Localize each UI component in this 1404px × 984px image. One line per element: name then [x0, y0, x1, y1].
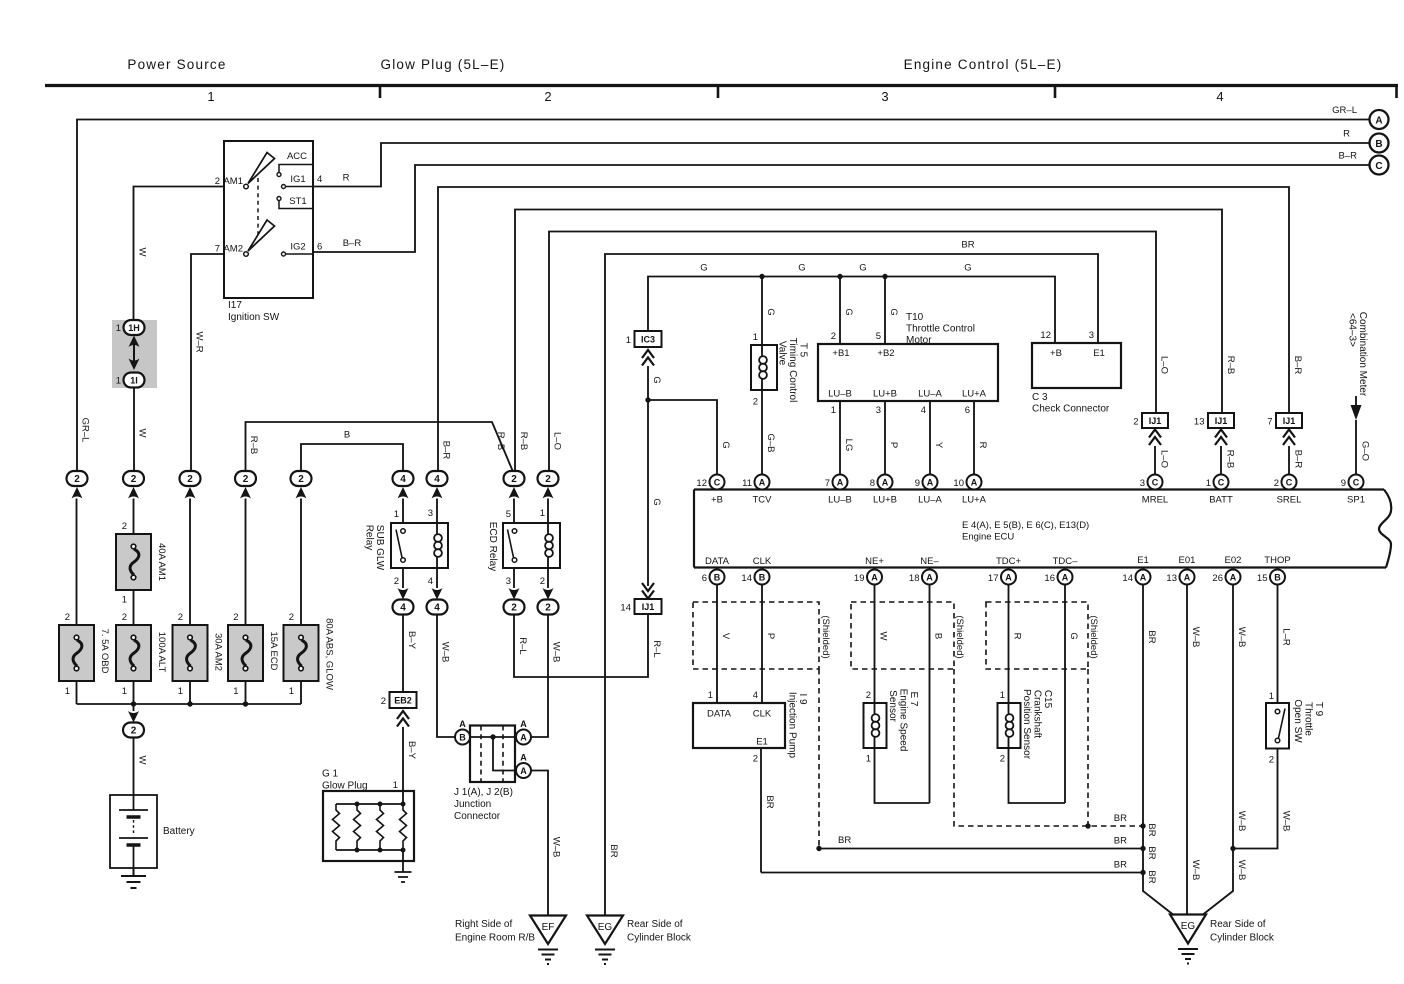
svg-text:L–O: L–O — [552, 432, 563, 450]
svg-text:Motor: Motor — [906, 335, 932, 346]
svg-text:Cylinder Block: Cylinder Block — [627, 933, 692, 944]
svg-text:3: 3 — [1140, 478, 1145, 489]
svg-text:G 1: G 1 — [322, 769, 339, 780]
svg-text:LU–A: LU–A — [918, 495, 942, 506]
svg-text:LU+B: LU+B — [873, 389, 897, 400]
svg-text:1: 1 — [753, 332, 758, 343]
svg-text:1: 1 — [831, 405, 836, 416]
svg-text:A: A — [971, 478, 978, 488]
svg-text:W: W — [878, 632, 889, 641]
svg-text:+B: +B — [711, 495, 723, 506]
svg-text:TDC–: TDC– — [1053, 556, 1079, 567]
ECD coil — [547, 523, 549, 568]
svg-text:1I: 1I — [130, 376, 138, 386]
svg-text:9: 9 — [915, 478, 920, 489]
svg-text:A: A — [1184, 573, 1191, 583]
svg-text:Battery: Battery — [163, 826, 195, 837]
svg-text:W–B: W–B — [1236, 860, 1247, 881]
wire W to battery — [133, 738, 135, 796]
svg-text:16: 16 — [1044, 573, 1055, 584]
svg-text:CLK: CLK — [753, 709, 772, 720]
svg-text:G: G — [1068, 632, 1079, 639]
svg-text:3: 3 — [428, 508, 433, 519]
svg-text:LU–B: LU–B — [828, 495, 852, 506]
svg-text:1: 1 — [1269, 691, 1274, 702]
svg-text:BR: BR — [838, 835, 851, 846]
svg-text:3: 3 — [1089, 330, 1094, 341]
svg-text:12: 12 — [696, 478, 707, 489]
relay SUB GLW box — [403, 499, 437, 524]
svg-text:5: 5 — [876, 331, 881, 342]
svg-text:GR–L: GR–L — [1332, 105, 1357, 116]
svg-text:1: 1 — [866, 754, 871, 765]
svg-text:11: 11 — [742, 478, 752, 489]
svg-text:A: A — [520, 733, 527, 743]
svg-text:NE–: NE– — [920, 556, 939, 567]
wire W-B SUB GLW pin4 to junction B — [437, 615, 455, 738]
svg-text:2: 2 — [544, 89, 551, 104]
svg-text:Connector: Connector — [454, 811, 501, 822]
junction dots on fuse bus — [131, 701, 136, 706]
wire R from IG1 to connector B — [313, 143, 1369, 187]
svg-text:7: 7 — [825, 478, 830, 489]
wire BR lower line from I9 — [761, 872, 1143, 874]
ignition switch I17 box — [224, 141, 313, 298]
svg-text:2: 2 — [233, 612, 238, 623]
svg-text:C: C — [1286, 478, 1293, 488]
svg-text:W–B: W–B — [1281, 811, 1292, 832]
svg-text:2: 2 — [866, 690, 871, 701]
wire G TDC- — [1064, 585, 1066, 804]
svg-text:MREL: MREL — [1142, 495, 1168, 506]
svg-text:+B1: +B1 — [832, 348, 849, 359]
svg-text:18: 18 — [909, 573, 920, 584]
svg-text:2: 2 — [215, 176, 220, 187]
wire AM1 W — [134, 187, 225, 321]
wire col2 to fuse 40A AM1 — [133, 499, 135, 535]
svg-text:B–R: B–R — [1293, 450, 1304, 469]
SUB GLW relay pin3 connector — [427, 471, 448, 486]
wire col5 to fuse 80A ABS GLOW — [300, 499, 302, 626]
svg-text:A: A — [1005, 573, 1012, 583]
svg-text:C: C — [1353, 478, 1360, 488]
sensor E7 engine speed — [864, 703, 887, 748]
svg-text:BR: BR — [1146, 823, 1157, 836]
header rule bar — [45, 84, 1398, 87]
connector 2 IJ1 — [1142, 413, 1168, 428]
svg-text:R: R — [1343, 129, 1350, 140]
svg-text:4: 4 — [753, 690, 758, 701]
connector 13 IJ1 — [1208, 413, 1234, 428]
fuse 80A ABS GLOW — [284, 625, 319, 681]
SUB GLW switch contact — [401, 529, 406, 534]
svg-text:Check Connector: Check Connector — [1032, 404, 1110, 415]
connector 1I — [124, 373, 145, 388]
switch T9 throttle open — [1266, 703, 1289, 749]
svg-text:2: 2 — [187, 474, 193, 485]
wire B-R from IG2 to connector C — [313, 165, 1369, 252]
svg-text:2: 2 — [243, 474, 249, 485]
wire B NE- — [929, 585, 931, 804]
svg-text:1: 1 — [207, 89, 214, 104]
svg-text:BATT: BATT — [1209, 495, 1233, 506]
svg-text:R: R — [977, 442, 988, 449]
node G branch — [645, 397, 650, 402]
svg-text:B–Y: B–Y — [406, 741, 417, 760]
svg-text:G–O: G–O — [1360, 441, 1371, 461]
svg-text:100A ALT: 100A ALT — [156, 632, 167, 673]
svg-text:IJ1: IJ1 — [1283, 416, 1296, 426]
svg-text:2: 2 — [1000, 754, 1005, 765]
svg-text:4: 4 — [1216, 89, 1223, 104]
wire W-B ECD pin2 to junction A — [531, 615, 548, 738]
svg-text:BR: BR — [1146, 630, 1157, 643]
wire E7 to NE- — [875, 748, 930, 803]
wire B-R row to SREL — [438, 187, 1289, 479]
svg-text:2: 2 — [1269, 755, 1274, 766]
svg-text:1: 1 — [116, 323, 121, 334]
svg-text:ECD Relay: ECD Relay — [487, 522, 498, 571]
svg-text:Ignition SW: Ignition SW — [228, 312, 280, 323]
svg-text:A: A — [882, 478, 889, 488]
svg-text:W–B: W–B — [551, 642, 562, 663]
double arrow link 1H-1I — [133, 340, 135, 366]
svg-text:7. 5A OBD: 7. 5A OBD — [99, 629, 110, 674]
svg-text:EF: EF — [542, 922, 555, 933]
wire R-L ECD pin3 to IJ1 — [514, 613, 648, 677]
svg-text:Engine Control (5L–E): Engine Control (5L–E) — [904, 57, 1063, 72]
svg-text:LU+A: LU+A — [962, 495, 987, 506]
svg-text:R: R — [343, 173, 350, 184]
node G bus T5 — [759, 274, 764, 279]
svg-text:TDC+: TDC+ — [996, 556, 1022, 567]
svg-text:R: R — [1012, 633, 1023, 640]
svg-text:6: 6 — [965, 405, 970, 416]
svg-text:6: 6 — [317, 242, 322, 253]
svg-text:BR: BR — [1114, 836, 1127, 847]
svg-text:B: B — [1274, 573, 1281, 583]
svg-text:Throttle Control: Throttle Control — [906, 324, 975, 335]
svg-text:4: 4 — [400, 474, 406, 485]
svg-text:15A ECD: 15A ECD — [268, 631, 279, 670]
fuse 15A ECD — [228, 625, 263, 681]
svg-text:2: 2 — [545, 474, 551, 485]
svg-text:BR: BR — [961, 240, 974, 251]
ECU pin 7 A LU-B — [833, 475, 848, 490]
svg-text:W–B: W–B — [1190, 627, 1201, 648]
wire AM2 W-R — [191, 254, 224, 471]
wire P CLK — [761, 585, 763, 704]
fuse 30A AM2 — [173, 625, 208, 681]
wire BR C3 E1 to EG ground — [605, 254, 1098, 915]
svg-text:L–O: L–O — [1159, 450, 1170, 468]
svg-text:17: 17 — [988, 573, 999, 584]
svg-text:A: A — [871, 573, 878, 583]
ECU pin 1 C BATT — [1214, 475, 1229, 490]
svg-text:LU+B: LU+B — [873, 495, 897, 506]
svg-text:B–Y: B–Y — [406, 631, 417, 650]
svg-text:2: 2 — [131, 474, 137, 485]
svg-text:13: 13 — [1194, 417, 1205, 428]
svg-text:1: 1 — [626, 335, 631, 346]
svg-text:SREL: SREL — [1277, 495, 1302, 506]
svg-text:B: B — [344, 430, 350, 441]
svg-text:4: 4 — [434, 603, 440, 614]
ECU pin 10 A LU+A — [967, 475, 982, 490]
battery feed arrow and connector — [133, 704, 135, 711]
svg-text:A: A — [759, 478, 766, 488]
ECU pin 9 A LU-A — [923, 475, 938, 490]
wire V DATA — [716, 585, 718, 704]
svg-text:+B2: +B2 — [877, 348, 894, 359]
connector 7 IJ1 — [1276, 413, 1302, 428]
svg-text:19: 19 — [854, 573, 865, 584]
svg-text:E1: E1 — [1093, 348, 1105, 359]
svg-text:+B: +B — [1050, 348, 1062, 359]
wire col3 to fuse 30A AM2 — [189, 499, 191, 626]
connector oval col4 R-B — [235, 471, 256, 486]
wire col1 to fuse 7.5A OBD — [76, 499, 78, 626]
svg-text:R–L: R–L — [517, 637, 528, 654]
SUB GLW relay pin1 connector — [393, 471, 414, 486]
svg-text:A: A — [926, 573, 933, 583]
svg-text:EG: EG — [598, 922, 613, 933]
T10 pin 2 +B1 — [839, 277, 841, 345]
svg-text:G: G — [888, 308, 899, 315]
svg-text:Y: Y — [933, 442, 944, 449]
svg-text:A: A — [1375, 116, 1382, 127]
svg-text:AM2: AM2 — [223, 244, 243, 255]
svg-text:3: 3 — [881, 89, 888, 104]
svg-text:G: G — [843, 308, 854, 315]
svg-text:W: W — [137, 248, 148, 257]
svg-text:14: 14 — [1122, 573, 1133, 584]
svg-text:C: C — [1218, 478, 1225, 488]
svg-text:Engine ECU: Engine ECU — [962, 532, 1014, 543]
wire W-B junction to EF ground — [531, 771, 548, 916]
svg-text:1: 1 — [65, 686, 70, 697]
svg-text:2: 2 — [1274, 478, 1279, 489]
wire B col5 to SUB GLW relay pin1 — [301, 444, 403, 471]
svg-text:E1: E1 — [1137, 555, 1149, 566]
svg-text:Cylinder Block: Cylinder Block — [1210, 933, 1275, 944]
node G bus +B2 — [882, 274, 887, 279]
wire G-B T5 to TCV — [761, 390, 763, 474]
svg-text:Power Source: Power Source — [127, 57, 226, 72]
svg-text:Engine Room R/B: Engine Room R/B — [455, 933, 535, 944]
svg-text:2: 2 — [540, 576, 545, 587]
svg-text:Glow Plug (5L–E): Glow Plug (5L–E) — [381, 57, 506, 72]
junction pin A lower — [516, 763, 531, 778]
svg-text:3: 3 — [506, 576, 511, 587]
svg-text:A: A — [520, 753, 527, 763]
ECU pin 3 C MREL — [1148, 475, 1163, 490]
wire R TDC+ — [1008, 585, 1010, 704]
svg-text:IJ1: IJ1 — [1215, 416, 1228, 426]
svg-text:B–R: B–R — [441, 441, 452, 460]
svg-text:2: 2 — [65, 612, 70, 623]
node shield TDC — [1085, 823, 1090, 828]
svg-text:IJ1: IJ1 — [1149, 416, 1162, 426]
svg-text:R–B: R–B — [1225, 356, 1236, 374]
svg-text:W–B: W–B — [1236, 627, 1247, 648]
svg-text:B: B — [759, 573, 766, 583]
svg-text:T10: T10 — [906, 312, 924, 323]
glow plug resistor 3 — [377, 804, 384, 850]
fuse 7.5A OBD — [59, 625, 94, 681]
wire G from IC3 down — [647, 366, 649, 586]
svg-text:P: P — [888, 442, 899, 448]
ECU pin 2 C SREL — [1282, 475, 1297, 490]
junction pin A upper — [516, 730, 531, 745]
svg-text:2: 2 — [511, 474, 517, 485]
svg-text:1: 1 — [393, 780, 398, 791]
ECU engine box — [694, 490, 1386, 568]
svg-text:EB2: EB2 — [394, 696, 412, 706]
svg-text:2: 2 — [511, 603, 517, 614]
svg-text:2: 2 — [1133, 417, 1138, 428]
svg-text:R–B: R–B — [248, 436, 259, 454]
wire G bus — [648, 277, 1055, 344]
glow plug G1 box — [323, 791, 414, 861]
svg-text:GR–L: GR–L — [80, 418, 91, 443]
battery — [110, 795, 157, 868]
shield drain TDC — [1087, 669, 1089, 826]
svg-text:4: 4 — [317, 174, 322, 185]
svg-text:EG: EG — [1181, 921, 1196, 932]
svg-text:15: 15 — [1257, 573, 1268, 584]
svg-text:A: A — [1062, 573, 1069, 583]
svg-text:B–R: B–R — [1339, 151, 1358, 162]
svg-text:1: 1 — [289, 686, 294, 697]
svg-text:THOP: THOP — [1264, 555, 1290, 566]
svg-text:W–B: W–B — [1190, 860, 1201, 881]
svg-text:L–O: L–O — [1159, 356, 1170, 374]
svg-text:W: W — [137, 756, 148, 765]
connector C — [1370, 156, 1389, 175]
shield drain NE — [954, 669, 1143, 826]
connector 14 IJ1 — [642, 583, 654, 599]
wire B-Y to EB2 — [402, 615, 404, 693]
svg-text:B: B — [1375, 139, 1382, 150]
svg-text:Right Side of: Right Side of — [455, 919, 512, 930]
svg-text:2: 2 — [394, 576, 399, 587]
svg-text:1: 1 — [116, 376, 121, 387]
svg-text:2: 2 — [122, 612, 127, 623]
svg-text:9: 9 — [1341, 478, 1346, 489]
svg-text:40A AM1: 40A AM1 — [156, 543, 167, 581]
svg-text:1: 1 — [178, 686, 183, 697]
svg-text:12: 12 — [1040, 330, 1051, 341]
svg-text:BR: BR — [1146, 846, 1157, 859]
wire W below 1I — [133, 388, 135, 471]
svg-text:G: G — [651, 376, 662, 383]
svg-text:B: B — [933, 633, 944, 639]
svg-text:Rear Side of: Rear Side of — [1210, 919, 1266, 930]
relay ECD box — [514, 499, 548, 524]
svg-text:BR: BR — [1114, 813, 1127, 824]
wire BR E1 to EG ground — [1143, 585, 1173, 915]
svg-text:DATA: DATA — [707, 709, 732, 720]
connector oval col1 GR-L — [67, 471, 88, 486]
connector B — [1370, 134, 1389, 153]
svg-text:B–R: B–R — [1292, 356, 1303, 375]
svg-text:BR: BR — [1146, 870, 1157, 883]
connector IC3 — [635, 331, 662, 347]
wire G branch to ECU +B — [648, 400, 717, 474]
svg-text:G: G — [651, 498, 662, 505]
svg-text:Rear Side of: Rear Side of — [627, 919, 683, 930]
svg-text:Glow Plug: Glow Plug — [322, 781, 368, 792]
svg-text:SP1: SP1 — [1347, 495, 1365, 506]
svg-text:G: G — [798, 263, 805, 274]
shield box DATA CLK — [693, 602, 819, 669]
svg-text:(Shielded): (Shielded) — [820, 615, 831, 658]
SUB GLW coil — [436, 523, 438, 568]
svg-text:4: 4 — [434, 474, 440, 485]
connector A — [1370, 110, 1389, 129]
connector EB2 — [390, 692, 417, 708]
svg-text:E02: E02 — [1225, 555, 1242, 566]
svg-text:30A AM2: 30A AM2 — [213, 633, 224, 671]
pump I9 injection box — [693, 703, 785, 748]
shield drain to BR — [818, 669, 820, 849]
svg-text:V: V — [720, 633, 731, 640]
svg-text:E 4(A), E 5(B), E 6(C), E13(D): E 4(A), E 5(B), E 6(C), E13(D) — [962, 520, 1089, 531]
svg-text:IJ1: IJ1 — [642, 602, 655, 612]
ECD switch contact — [512, 529, 517, 534]
svg-text:R–B: R–B — [518, 432, 529, 450]
svg-text:7: 7 — [215, 244, 220, 255]
svg-text:L–R: L–R — [1281, 628, 1292, 646]
svg-text:W–B: W–B — [551, 837, 562, 858]
svg-text:13: 13 — [1166, 573, 1177, 584]
valve T5 timing control — [761, 277, 763, 346]
svg-text:6: 6 — [702, 573, 707, 584]
sensor C15 crankshaft position — [998, 703, 1021, 748]
svg-text:NE+: NE+ — [865, 556, 884, 567]
svg-text:IC3: IC3 — [641, 335, 655, 345]
svg-text:DATA: DATA — [705, 556, 730, 567]
svg-text:2: 2 — [298, 474, 304, 485]
switch lever AM1 — [248, 153, 275, 184]
T10 pin 5 +B2 — [884, 277, 886, 345]
svg-text:2: 2 — [753, 397, 758, 408]
svg-text:A: A — [520, 719, 527, 729]
svg-text:BR: BR — [764, 795, 775, 808]
svg-text:1H: 1H — [128, 323, 140, 333]
wire B-Y to glow plug — [402, 727, 404, 804]
fuse bus wire — [77, 703, 302, 705]
svg-text:W: W — [137, 429, 148, 438]
glow plug resistor 4 — [400, 804, 407, 850]
svg-text:8: 8 — [870, 478, 875, 489]
battery ground — [121, 868, 146, 888]
ground EG cylinder block left — [587, 916, 623, 945]
svg-text:2: 2 — [545, 603, 551, 614]
shield box TDC — [986, 602, 1088, 669]
svg-text:P: P — [765, 633, 776, 639]
svg-text:1: 1 — [122, 595, 127, 606]
svg-text:2: 2 — [131, 726, 137, 737]
wire G-O to SP1 — [1355, 420, 1357, 474]
wire col4 to fuse 15A ECD — [245, 499, 247, 626]
svg-text:G: G — [700, 263, 707, 274]
wire C15 to TDC- — [1009, 748, 1066, 803]
svg-text:C: C — [714, 478, 721, 488]
svg-text:2: 2 — [178, 612, 183, 623]
motor T10 throttle control box — [818, 344, 998, 401]
